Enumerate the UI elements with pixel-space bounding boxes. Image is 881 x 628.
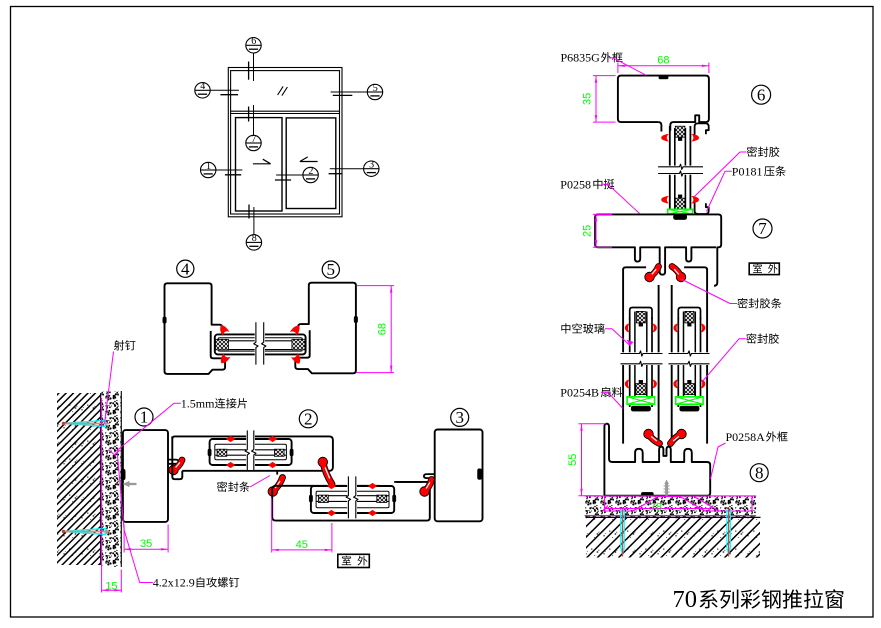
svg-text:78: 78 bbox=[650, 502, 662, 514]
lip on frame 3 bbox=[424, 474, 435, 478]
dimension 45 bbox=[271, 499, 273, 553]
window elevation outer frame bbox=[228, 68, 342, 217]
frame profile 3 (jamb, mirrored) bbox=[435, 430, 483, 522]
svg-text:7: 7 bbox=[251, 134, 256, 145]
green bead bbox=[627, 397, 655, 404]
wall-side gray arrow bbox=[123, 481, 137, 487]
svg-text:25: 25 bbox=[582, 225, 594, 237]
svg-text:2: 2 bbox=[304, 409, 313, 428]
gray anchor screw on sill bbox=[664, 480, 669, 496]
P0181 pressure strip top bbox=[695, 123, 709, 134]
black cap bbox=[680, 406, 700, 411]
sill frame body (P0258A) bbox=[604, 424, 710, 496]
svg-text:3: 3 bbox=[455, 408, 464, 427]
svg-text:4: 4 bbox=[181, 259, 190, 278]
anchor tab on profile 4 bbox=[163, 317, 167, 323]
svg-text:4: 4 bbox=[200, 81, 205, 92]
dimension 55 sill bbox=[579, 423, 607, 425]
break symbols across sashes bbox=[622, 352, 662, 365]
magenta outline of mortar band bbox=[585, 495, 757, 497]
notch on head frame top bbox=[659, 76, 668, 79]
black cap on mullion top bbox=[673, 215, 686, 220]
dimension 68 for detail 5 bbox=[357, 285, 395, 287]
section balloon 8 bbox=[246, 235, 261, 250]
detail circle 4 bbox=[177, 260, 194, 277]
svg-text:1: 1 bbox=[140, 408, 149, 427]
svg-text:P0181: P0181 bbox=[732, 164, 763, 178]
stipple strip boundary bbox=[120, 391, 122, 567]
left sliding sash bbox=[236, 118, 283, 211]
upper shell left foot bbox=[172, 436, 182, 479]
mortar stipple strip bbox=[101, 392, 121, 568]
svg-text:55: 55 bbox=[567, 454, 579, 466]
anchor tab on profile 5 bbox=[354, 316, 358, 322]
P0181 pressure strip bottom bbox=[695, 203, 709, 214]
mortar stipple band under sill bbox=[585, 497, 757, 517]
svg-text:45: 45 bbox=[296, 539, 308, 551]
svg-text:1: 1 bbox=[206, 161, 211, 172]
red seals detail 6 top bbox=[661, 134, 670, 142]
outdoor label box right bbox=[749, 263, 779, 275]
dimension 15 bbox=[101, 398, 103, 593]
anchor bolt upper (cyan) bbox=[64, 420, 106, 426]
svg-text:2: 2 bbox=[308, 166, 313, 177]
ground anchor left (cyan+red) bbox=[621, 510, 624, 554]
ground top line bbox=[586, 516, 761, 518]
break symbol detail 6 bbox=[659, 166, 702, 175]
detail circle 3 bbox=[451, 408, 469, 426]
lower shell top line right of tube bbox=[394, 481, 422, 483]
gasket bottom bbox=[684, 384, 694, 395]
svg-text:P0258: P0258 bbox=[560, 177, 591, 191]
red hook seal B (sealing strip) bbox=[323, 462, 332, 484]
svg-text:68: 68 bbox=[657, 54, 669, 66]
red side seals bbox=[673, 323, 678, 332]
label sealant upper bbox=[747, 146, 780, 156]
anchor screw tab on frame 1 bbox=[121, 469, 125, 480]
svg-text:35: 35 bbox=[140, 538, 152, 550]
step on upper shell bottom bbox=[276, 471, 278, 475]
green glazing bead (detail 6) bbox=[668, 209, 693, 214]
detail circle 6 bbox=[752, 85, 771, 104]
detail circle 5 bbox=[322, 261, 339, 278]
svg-text:P6835G: P6835G bbox=[561, 51, 601, 65]
break in lower tube bbox=[347, 478, 357, 517]
anchor tab on frame 3 bbox=[478, 469, 482, 480]
section balloon 7 bbox=[246, 135, 261, 150]
label sealant lower bbox=[746, 333, 779, 343]
svg-text:35: 35 bbox=[582, 93, 594, 105]
red interlock hook left sash top bbox=[650, 267, 659, 278]
detail circle 8 bbox=[750, 464, 768, 482]
svg-text:3: 3 bbox=[369, 160, 374, 171]
svg-text:6: 6 bbox=[251, 36, 256, 47]
section balloon 4 bbox=[195, 83, 210, 98]
anchor bolt lower (cyan) bbox=[64, 528, 106, 534]
svg-text:4.2x12.9: 4.2x12.9 bbox=[153, 576, 195, 590]
red interlock hook right sash bottom bbox=[671, 434, 682, 444]
dimension 68 detail 6 bbox=[617, 63, 619, 74]
frame profile 5 (jamb, mirrored) bbox=[295, 283, 356, 374]
red hook at frame 1 bbox=[174, 460, 183, 470]
red interlock hook left sash bottom bbox=[649, 434, 660, 444]
dimension 35 bbox=[123, 525, 125, 553]
label sealing strip bbox=[217, 481, 250, 491]
break symbol in tube 4-5 bbox=[255, 324, 265, 363]
svg-text:8: 8 bbox=[252, 233, 257, 244]
mullion body (P0258) bbox=[595, 214, 721, 285]
lower sash glazing tube (detail 2) bbox=[311, 486, 394, 513]
glass panes (detail 6) bbox=[674, 128, 676, 209]
detail circle 2 bbox=[299, 410, 317, 428]
outdoor label box bottom bbox=[338, 554, 370, 567]
detail 6 head frame body (P6835G) bbox=[618, 76, 709, 131]
black cap bbox=[631, 406, 651, 411]
break in upper tube bbox=[246, 432, 255, 470]
section balloon 6 bbox=[246, 38, 261, 53]
red seals detail 6 bottom bbox=[661, 196, 670, 204]
svg-text:5: 5 bbox=[373, 83, 378, 94]
glazing tube between 4 and 5 bbox=[215, 334, 306, 354]
left sash of details 7/8 bbox=[622, 269, 624, 443]
right sash slide arrow bbox=[300, 161, 318, 163]
svg-text:6: 6 bbox=[757, 85, 766, 104]
right sliding sash bbox=[286, 118, 336, 209]
label sealant strip bbox=[737, 298, 781, 308]
section balloon 5 bbox=[367, 84, 382, 99]
frame profile 1 (jamb at wall) bbox=[123, 430, 168, 522]
wall boundary line bbox=[100, 393, 102, 565]
red hook seal A under shell bbox=[273, 478, 283, 492]
right sash of details 7/8 bbox=[706, 269, 708, 443]
dimension 25 mullion bbox=[593, 213, 612, 215]
dimension 78 in mortar band bbox=[605, 508, 710, 510]
red hook seal C at frame 3 bbox=[425, 480, 432, 492]
svg-text:1.5mm: 1.5mm bbox=[181, 397, 215, 411]
lip on frame 1 bbox=[168, 460, 179, 464]
glazing channel walls (detail 6) bbox=[669, 126, 671, 214]
svg-text:70: 70 bbox=[673, 586, 698, 613]
detail circle 1 bbox=[135, 408, 153, 426]
section balloon 2 bbox=[303, 167, 318, 182]
upper sash glazing tube (detail 2) bbox=[210, 439, 292, 465]
section balloon 1 bbox=[201, 162, 216, 177]
upper sash outer shell (detail 2) bbox=[172, 436, 333, 470]
svg-text:68: 68 bbox=[377, 323, 389, 335]
left sash slide arrow bbox=[253, 163, 271, 165]
svg-text:7: 7 bbox=[758, 219, 767, 238]
red interlock hook right sash top bbox=[672, 267, 681, 278]
label insulated glass bbox=[561, 323, 604, 333]
roller block on sill bbox=[641, 492, 653, 496]
ground anchor right (cyan+red) bbox=[727, 510, 730, 554]
svg-text:8: 8 bbox=[755, 463, 764, 482]
section balloon 3 bbox=[364, 161, 379, 176]
frame profile 4 (jamb) bbox=[165, 283, 226, 374]
label shedding nail bbox=[114, 340, 136, 350]
gasket top bbox=[685, 311, 694, 323]
lower sash outer shell (detail 2) bbox=[272, 482, 430, 521]
detail circle 7 bbox=[753, 219, 772, 238]
bottom gasket block (detail 6) bbox=[675, 198, 685, 209]
gasket bottom bbox=[636, 384, 646, 395]
svg-text:5: 5 bbox=[327, 260, 336, 279]
gasket top bbox=[636, 311, 645, 323]
svg-text:P0254B: P0254B bbox=[560, 385, 599, 399]
svg-text:P0258A: P0258A bbox=[726, 430, 766, 444]
head frame pocket lip bbox=[658, 122, 661, 131]
top gasket block (detail 6) bbox=[675, 126, 685, 137]
svg-text:15: 15 bbox=[105, 580, 117, 592]
magenta anchor strap under sill bbox=[605, 497, 753, 512]
green bead bbox=[676, 397, 703, 404]
transom double line bbox=[231, 110, 340, 112]
red side seals bbox=[625, 323, 630, 332]
dimension 35 detail 6 bbox=[593, 75, 616, 77]
glass symbol bbox=[278, 86, 284, 95]
